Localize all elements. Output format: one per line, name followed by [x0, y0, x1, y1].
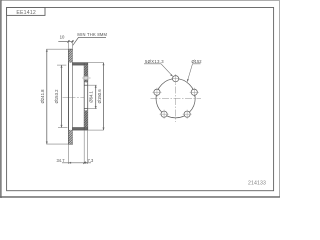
- drawing frame: [7, 8, 274, 191]
- svg-text:5ØX13.3: 5ØX13.3: [145, 59, 164, 64]
- disc left face: [68, 49, 70, 144]
- braking ring section hatch upper: [69, 49, 73, 62]
- bolt hole lower dash: [84, 79, 89, 81]
- outer page border: [1, 1, 280, 198]
- centerline of section: [63, 96, 85, 98]
- height dim extension flange right: [87, 131, 89, 165]
- bolt hole label leader: [144, 64, 173, 77]
- bolt hole lower-right: [183, 110, 192, 119]
- hat top web line: [73, 63, 88, 66]
- bolt hole lower-left: [160, 110, 169, 119]
- svg-text:10: 10: [60, 35, 65, 40]
- svg-text:214133: 214133: [248, 180, 266, 186]
- height dim extension flange left: [83, 131, 85, 165]
- thickness dim 10 : extension lines: [68, 40, 70, 49]
- svg-text:Ø241.8: Ø241.8: [40, 89, 45, 104]
- outer border left edge (darker): [0, 0, 2, 198]
- pcd label leader: [187, 64, 200, 82]
- flange section hatch upper: [84, 65, 88, 82]
- min thickness leader: [73, 37, 106, 45]
- hat top extension to right dim: [88, 62, 104, 64]
- svg-text:Ø153.2: Ø153.2: [54, 89, 59, 104]
- hat bottom web line: [73, 128, 88, 131]
- bolt hole upper dash: [84, 75, 89, 77]
- hat bottom extension to right dim: [88, 129, 104, 131]
- bore dim extension top: [88, 84, 97, 86]
- bolt hole axis centerline: [82, 77, 91, 79]
- bolt hole window: [84, 77, 88, 80]
- bolt hole top: [171, 74, 180, 83]
- thickness dim 10 : dimension line: [58, 41, 73, 43]
- hat OD dim extension top: [57, 64, 66, 66]
- svg-text:34.7: 34.7: [57, 158, 66, 163]
- svg-text:EE1412: EE1412: [16, 10, 36, 16]
- svg-text:MIN THK 8MM: MIN THK 8MM: [77, 32, 107, 37]
- svg-text:Ø64.1: Ø64.1: [89, 90, 94, 102]
- hat outer dim line right: [103, 63, 105, 131]
- bolt hole upper-right: [190, 88, 199, 97]
- height dim extension left: [68, 145, 70, 165]
- bolt hole upper-left: [152, 88, 161, 97]
- svg-text:Ø150.6: Ø150.6: [97, 89, 102, 104]
- disc top edge: [68, 48, 73, 50]
- disc bottom edge: [68, 143, 73, 145]
- OD dim extension top: [46, 48, 68, 50]
- hat OD dimension line: [61, 65, 63, 127]
- title box: [7, 8, 45, 16]
- pitch circle: [156, 79, 195, 118]
- OD dim extension bottom: [46, 143, 68, 145]
- flange right line: [87, 63, 89, 131]
- height dimension line: [62, 162, 91, 164]
- disc right face: [72, 49, 74, 144]
- svg-text:Ø152: Ø152: [191, 59, 202, 64]
- flange left line: [83, 63, 85, 131]
- flange section hatch lower: [84, 110, 88, 127]
- svg-text:7.3: 7.3: [88, 158, 94, 163]
- hat OD dim extension bottom: [58, 127, 68, 129]
- braking ring section hatch lower: [69, 130, 73, 144]
- outer border bottom edge (darker): [0, 196, 280, 198]
- vertical centerline: [175, 75, 177, 122]
- bore bottom edge: [84, 108, 88, 110]
- bore top edge: [84, 84, 88, 86]
- horizontal centerline: [151, 97, 202, 99]
- bore dimension line: [95, 85, 97, 108]
- bore dim extension bottom: [88, 108, 97, 110]
- OD dimension line: [46, 49, 48, 144]
